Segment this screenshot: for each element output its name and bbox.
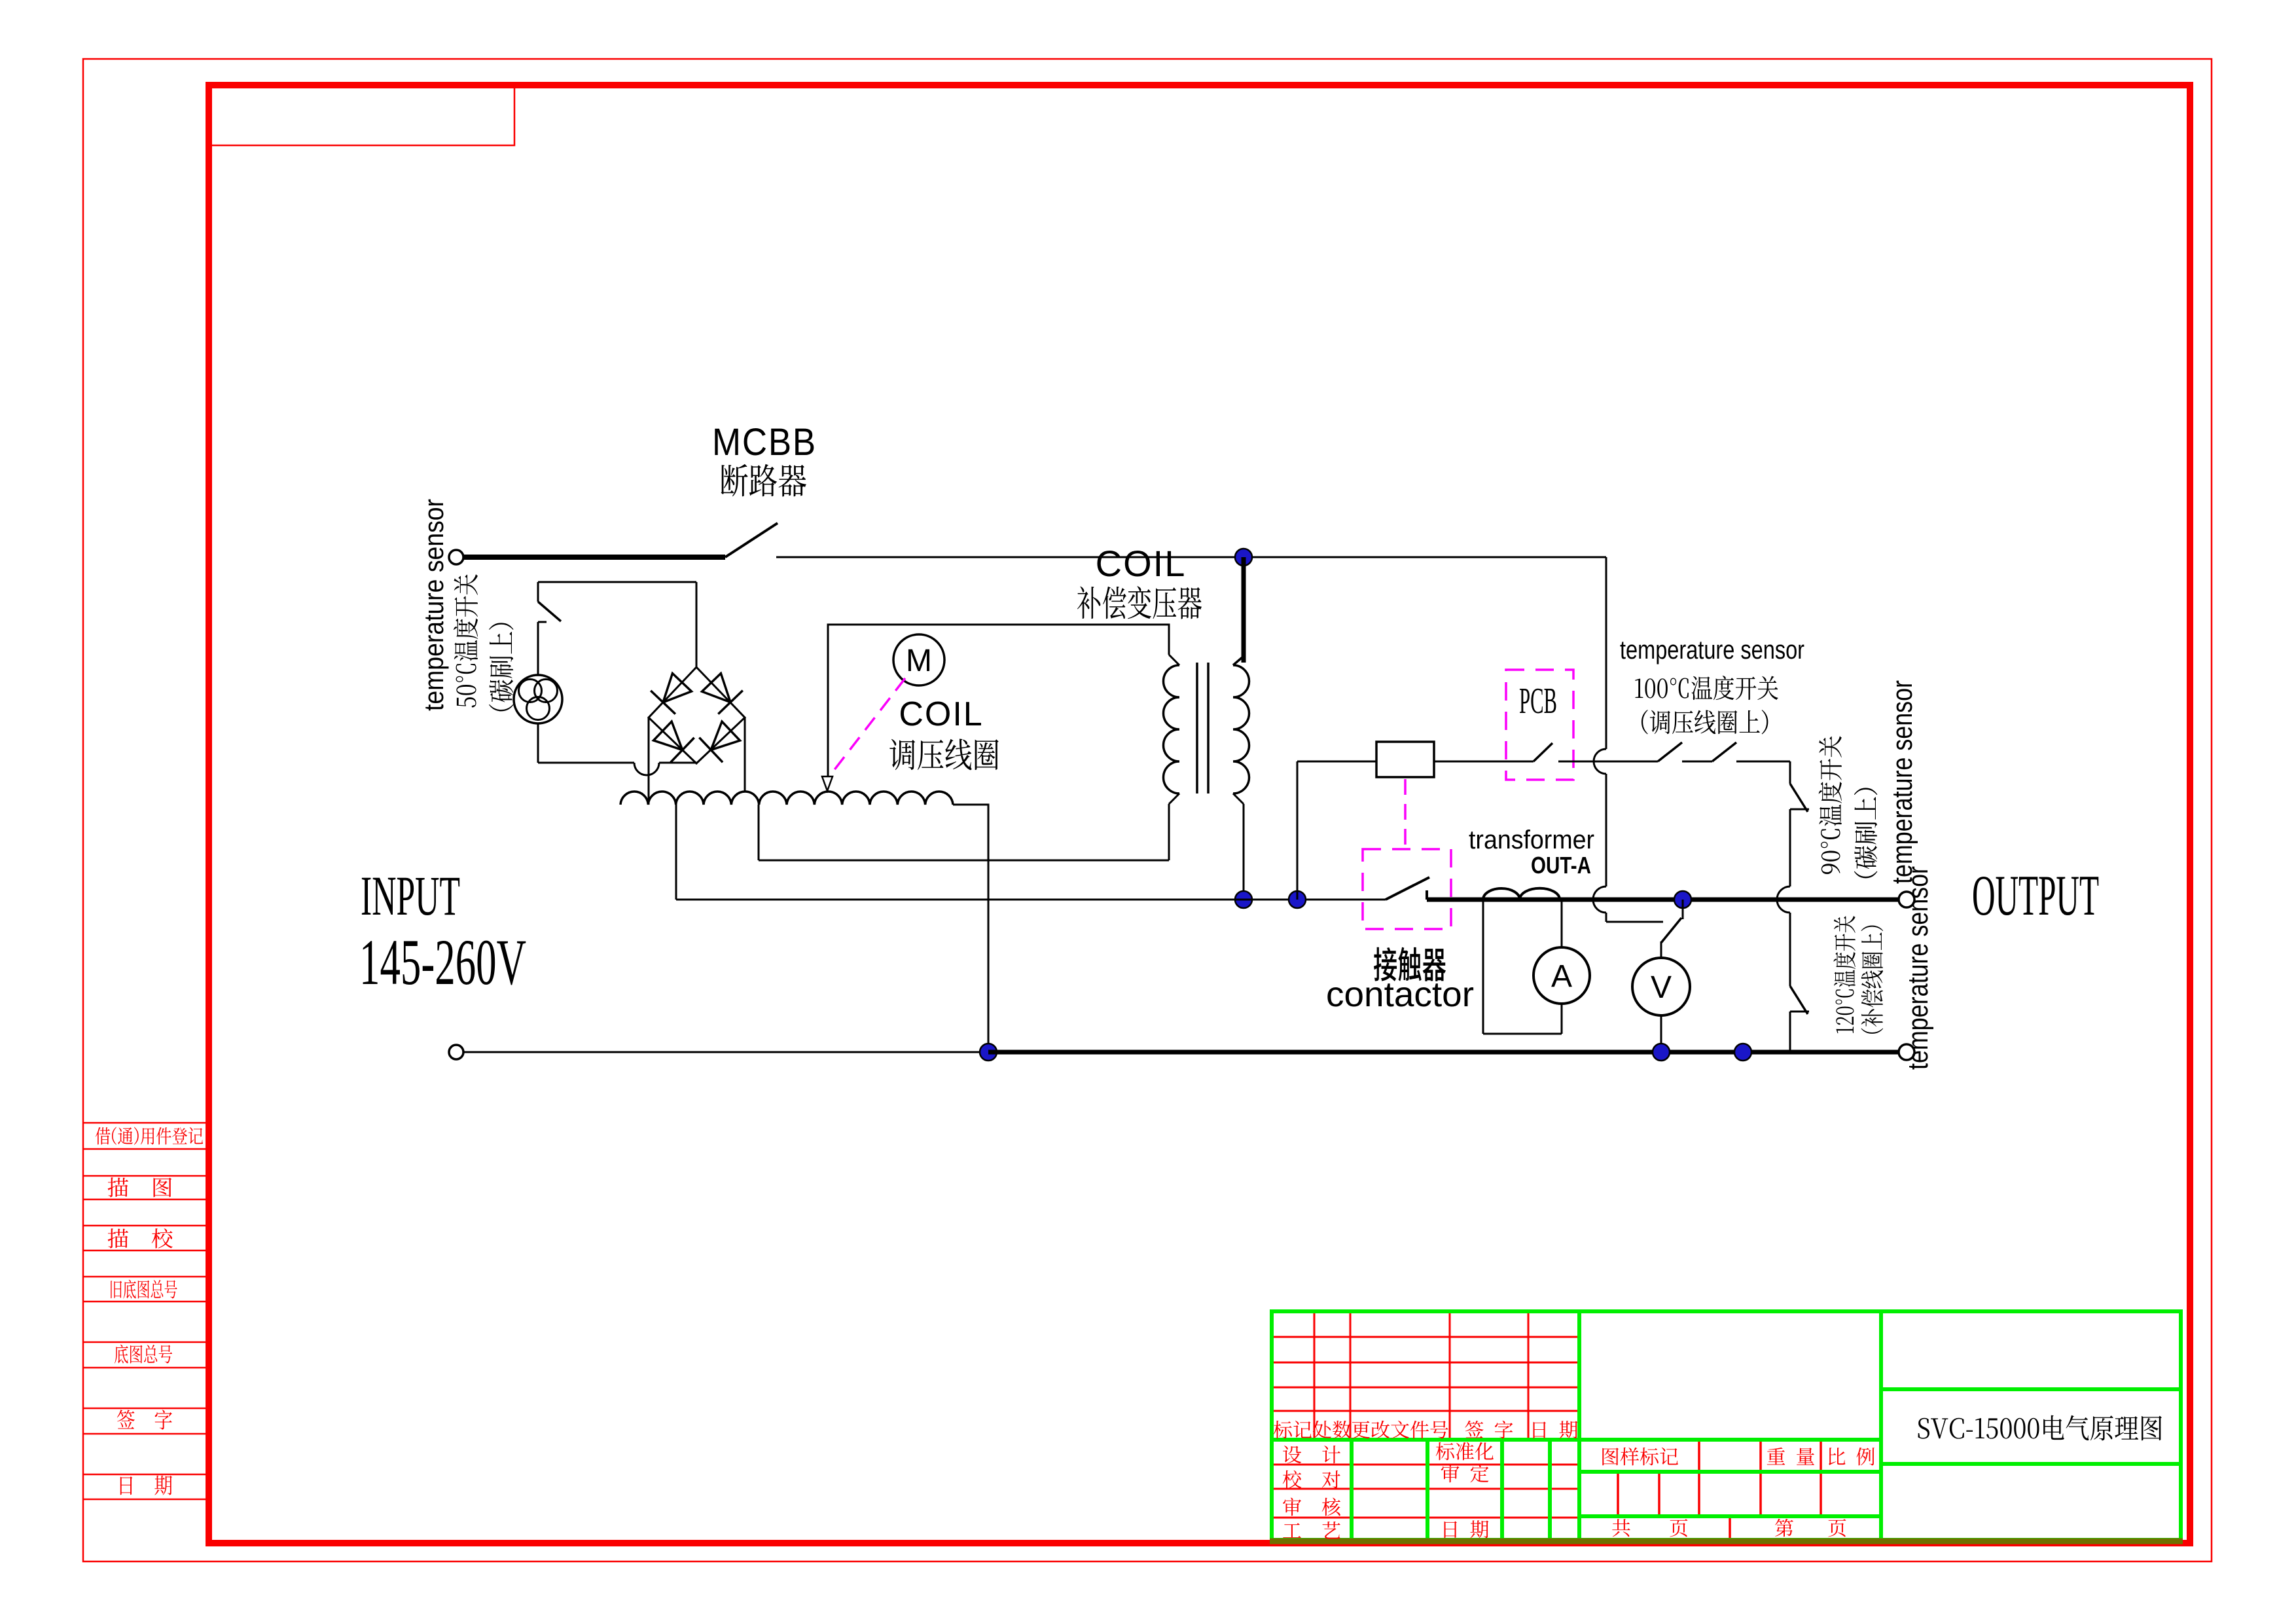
bridge right lead to coil — [744, 718, 746, 791]
variac tap lead to output line — [675, 805, 677, 900]
CT loop to ammeter — [1482, 900, 1484, 1034]
node V-meter bottom junction — [1653, 1044, 1670, 1061]
temperature switch 100C blade 2 — [1712, 742, 1736, 761]
label 断路器 — [721, 464, 806, 497]
label 图样标记 — [1602, 1448, 1678, 1466]
compensating transformer primary winding — [1163, 665, 1179, 793]
bridge rectifier diamond — [649, 667, 745, 763]
contactor link dashed — [1404, 779, 1407, 849]
fan motor symbol — [514, 675, 562, 723]
title block red revision row rules — [1272, 1336, 1579, 1338]
node secondary-output junction — [1235, 891, 1252, 908]
svg-text:transformer: transformer — [1469, 826, 1594, 854]
svg-text:COIL: COIL — [899, 695, 983, 733]
svg-text:145-260V: 145-260V — [359, 926, 526, 998]
label 描校 — [108, 1228, 173, 1248]
variac tap lead to transformer primary — [758, 805, 760, 860]
temperature switch 50C (blade) — [537, 582, 539, 602]
voltmeter V — [1632, 958, 1690, 1015]
label 审核 — [1283, 1498, 1340, 1516]
label 90C温度开关 (vertical) — [1819, 736, 1842, 874]
circuit breaker MCBB switch blade — [725, 523, 778, 557]
svg-text:OUT-A: OUT-A — [1531, 852, 1591, 879]
PCB relay contact blade — [1534, 743, 1552, 761]
wire 50C switch branch top — [538, 581, 696, 583]
compensating transformer secondary winding — [1233, 665, 1249, 793]
variac regulating winding (调压线圈) — [620, 792, 953, 805]
label 共页 — [1612, 1519, 1630, 1537]
label 比例 — [1829, 1448, 1874, 1466]
left margin table rules — [83, 1122, 209, 1124]
wire MCBB to junction and onward — [776, 556, 1606, 558]
label （调压线圈上） — [1641, 710, 1768, 734]
green horizontals — [1272, 1438, 1881, 1442]
motor-wiper mechanical link (dashed) — [831, 678, 905, 774]
svg-text:COIL: COIL — [1096, 543, 1187, 584]
diode D2 (upper-right) — [702, 674, 731, 702]
title block red verticals middle row2 — [1617, 1472, 1619, 1516]
svg-text:temperature sensor: temperature sensor — [1886, 680, 1918, 884]
relay coil box — [1376, 742, 1434, 777]
label 100C温度开关 — [1635, 676, 1778, 700]
node bottom bus junction 2 — [1734, 1044, 1751, 1061]
label （碳刷上） 50C (vertical) — [489, 623, 513, 711]
bottom bus thin segment — [463, 1051, 988, 1053]
input terminal top (L) — [449, 550, 463, 564]
title block red lower-left rules — [1272, 1464, 1579, 1466]
label 重量 — [1767, 1448, 1814, 1465]
label 50C温度开关 (vertical) — [454, 574, 478, 707]
svg-text:A: A — [1551, 959, 1572, 994]
contactor dashed enclosure — [1363, 849, 1451, 929]
label 第页 — [1775, 1519, 1793, 1537]
ammeter A — [1534, 947, 1590, 1004]
PCB dashed enclosure — [1506, 670, 1573, 780]
svg-text:MCBB: MCBB — [712, 421, 817, 464]
label 校对 — [1283, 1470, 1340, 1489]
header 标记 — [1274, 1421, 1312, 1438]
diode D3 (lower-left) — [654, 721, 683, 750]
output line from variac tap to contactor — [676, 899, 1386, 901]
servo motor M circle — [893, 634, 944, 685]
sense line from top bus down to V switch — [1605, 557, 1607, 749]
diode D1 (upper-left) — [663, 674, 691, 702]
label 120C温度开关 (vertical) — [1833, 916, 1856, 1033]
right sensor chain vertical with 90C switch — [1789, 761, 1791, 784]
label 设计 — [1283, 1446, 1340, 1463]
output terminal top — [1899, 892, 1914, 907]
top-left corner block of frame — [209, 85, 514, 145]
header 更改文件号 — [1352, 1421, 1448, 1439]
thick output bus — [1427, 898, 1899, 902]
wire PCB to temperature switches — [1558, 761, 1658, 763]
label 审定 — [1441, 1465, 1489, 1483]
header 日期 — [1534, 1421, 1578, 1438]
secondary bottom lead to output line — [1233, 793, 1244, 804]
title block red vertical bottom row — [1729, 1516, 1731, 1540]
wire fan to bridge bottom with hop — [537, 723, 539, 763]
svg-text:OUTPUT: OUTPUT — [1972, 864, 2099, 928]
node junction top bus — [1235, 549, 1252, 566]
svg-text:temperature sensor: temperature sensor — [1902, 866, 1934, 1070]
svg-text:contactor: contactor — [1326, 975, 1474, 1014]
label 补偿变压器 — [1077, 586, 1202, 619]
label 接触器 — [1374, 947, 1446, 981]
wire relay to PCB switch — [1434, 761, 1534, 763]
transformer core — [1196, 663, 1198, 793]
label 调压线圈 — [889, 739, 998, 770]
drawing title SVC-15000电气原理图 — [1918, 1415, 2161, 1441]
title block green frame — [1272, 1311, 2181, 1540]
node relay branch junction — [1289, 891, 1306, 908]
label 签字 — [117, 1410, 172, 1429]
coil assembly box — [828, 625, 1169, 776]
svg-text:temperature sensor: temperature sensor — [418, 499, 449, 711]
diode D4 (lower-right) — [711, 721, 740, 750]
green verticals — [1577, 1311, 1581, 1540]
svg-text:PCB: PCB — [1519, 681, 1557, 721]
wire thick input to MCBB — [463, 555, 725, 560]
label 旧底图总号 — [111, 1280, 177, 1299]
svg-text:INPUT: INPUT — [361, 864, 460, 927]
svg-text:V: V — [1651, 970, 1672, 1005]
label 日期 — [120, 1476, 172, 1495]
label 工艺 — [1283, 1522, 1340, 1539]
label 日期2 — [1444, 1520, 1489, 1538]
temperature switch 120C blade — [1790, 986, 1808, 1014]
variac right end down to bottom bus — [953, 805, 988, 1052]
label 描图 — [108, 1177, 172, 1197]
label 借(通)用件登记 — [96, 1127, 203, 1144]
header 处数 — [1313, 1421, 1351, 1439]
temperature switch 100C blade 1 — [1658, 742, 1682, 761]
header 签字 — [1465, 1421, 1513, 1439]
wiper arrow onto coil — [822, 776, 833, 791]
input terminal bottom (N) — [449, 1045, 463, 1059]
label （补偿线圈上） (vertical) — [1861, 926, 1883, 1034]
bottom bus thick segment — [988, 1050, 1899, 1055]
node bottom bus junction — [980, 1044, 997, 1061]
voltmeter switch blade — [1682, 900, 1684, 919]
current transformer humps — [1483, 888, 1560, 900]
node V-meter junction on bus — [1674, 891, 1691, 908]
thick inner drawing frame — [209, 85, 2190, 1543]
output terminal bottom — [1899, 1044, 1914, 1060]
hop over output bus — [1777, 886, 1790, 913]
bridge left lead to coil — [648, 718, 650, 805]
green-over-red bottom edge (olive) — [1270, 1539, 2183, 1544]
relay coil branch — [1297, 761, 1299, 900]
label 底图总号 — [115, 1345, 172, 1364]
title block red verticals middle row1 — [1698, 1440, 1700, 1472]
title block red inner verticals (revision columns) — [1314, 1311, 1316, 1440]
thick lead from top junction to secondary — [1242, 557, 1246, 663]
bridge top lead — [696, 582, 698, 667]
svg-text:temperature sensor: temperature sensor — [1620, 636, 1804, 665]
label （碳刷上） 90C (vertical) — [1854, 788, 1878, 878]
svg-text:M: M — [906, 644, 932, 678]
label 标准化 — [1436, 1442, 1494, 1461]
contactor main contact blade — [1386, 877, 1429, 900]
